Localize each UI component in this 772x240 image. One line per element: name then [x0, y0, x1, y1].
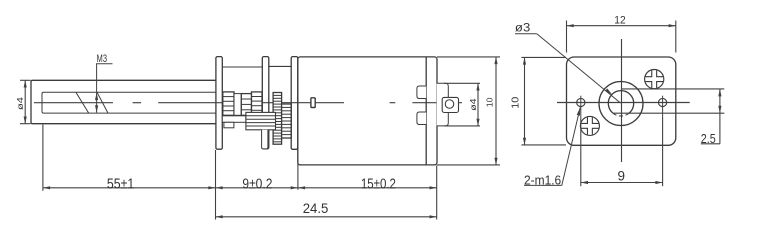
end cap crimp tab lower: [417, 112, 426, 125]
hole left vertical centerline: [580, 96, 582, 117]
gear 1 (first reduction): [223, 92, 234, 115]
label 2-m1.6 with leader: [524, 108, 580, 188]
dimension 10 (flange height): [510, 57, 567, 144]
tapped hole right (M1.6): [659, 98, 667, 106]
shaft thread crest lines: [42, 92, 216, 113]
gearbox tie bar upper 1: [222, 66, 262, 68]
svg-text:9: 9: [618, 169, 626, 184]
dimension 9±0.2 (gearbox length): [216, 177, 298, 193]
svg-text:55±1: 55±1: [107, 177, 134, 193]
svg-text:M3: M3: [97, 53, 108, 65]
shaft flat chamfer diagonal: [76, 92, 89, 113]
motor mounting plate: [291, 57, 298, 150]
gear 2 (second reduction): [241, 94, 251, 116]
gear 3 stack: [252, 92, 263, 115]
extension line at shaft flat: [42, 125, 44, 191]
gearbox middle plate (plate 2): [262, 57, 269, 149]
mounting screw M1.6 bottom-left: [580, 116, 599, 135]
hole right vertical centerline: [662, 96, 664, 117]
svg-text:9±0.2: 9±0.2: [242, 177, 272, 193]
flange outline: [567, 57, 676, 145]
terminal eyelet hole: [445, 100, 454, 109]
label M3 with leader: [95, 53, 113, 113]
dimension ø4 (shaft) left: [15, 80, 30, 123]
extension line at gearbox rear: [297, 150, 299, 190]
dimension 24.5 (gearbox + motor): [216, 201, 437, 219]
gearbox tie bar upper 2: [269, 65, 291, 67]
terminal block: [442, 97, 458, 112]
motor body outline: [298, 57, 437, 165]
end cap crimp tab upper: [417, 86, 426, 99]
svg-text:24.5: 24.5: [303, 201, 329, 216]
motor vent slot: [311, 98, 315, 108]
extension line at motor end: [436, 166, 438, 220]
svg-text:ø4: ø4: [468, 98, 478, 111]
svg-text:10: 10: [485, 97, 494, 107]
svg-text:ø3: ø3: [515, 22, 530, 34]
dimension 2.5 (screw offset): [613, 89, 724, 146]
gear 5 (motor pinion): [282, 104, 292, 138]
dimension 55±1 (shaft length): [43, 177, 216, 193]
svg-text:10: 10: [510, 97, 522, 109]
dimension ø4 (end cap boss): [444, 83, 480, 126]
gear shaft pin channel: [234, 94, 241, 116]
dimension 10 (motor diameter): [437, 57, 500, 165]
svg-text:ø4: ø4: [15, 97, 25, 110]
tapped hole left (M1.6): [577, 98, 585, 106]
dimension 12 (flange width): [567, 14, 676, 52]
dimension 9 (hole spacing): [581, 117, 663, 186]
lower tab under gear 1: [224, 122, 234, 128]
label ø3 with leader: [515, 22, 621, 103]
gear 4 (tall pinion near motor): [273, 93, 282, 145]
output shaft bar: [222, 116, 246, 123]
extension line at gearbox front: [215, 150, 217, 220]
gearbox front plate (plate 1): [216, 57, 222, 150]
svg-text:15±0.2: 15±0.2: [361, 177, 396, 193]
output shaft hole ø3 with flat: [608, 91, 633, 116]
flange horizontal centerline: [557, 102, 690, 104]
dimension 15±0.2 (motor length): [298, 177, 437, 193]
end cap boss (ø4): [437, 83, 449, 126]
mounting screw M1.6 top-right: [645, 70, 664, 89]
motor can end seam: [425, 57, 427, 165]
motor shaft (ø4) outline: [31, 80, 216, 123]
output gear block: [246, 112, 276, 129]
flange vertical centerline: [621, 39, 623, 162]
svg-text:12: 12: [614, 14, 625, 26]
bearing boss circle: [599, 82, 643, 126]
thread runout diagonal: [97, 92, 108, 113]
wire centerline of side view: [34, 102, 462, 104]
idler pin below output gear: [262, 130, 268, 149]
